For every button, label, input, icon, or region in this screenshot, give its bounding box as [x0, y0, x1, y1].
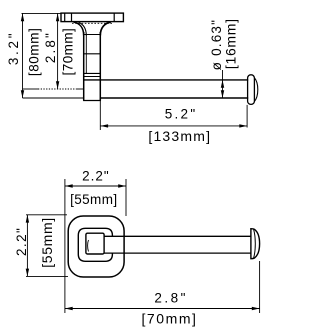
svg-text:[70mm]: [70mm]	[60, 28, 75, 76]
bar (front view)	[104, 236, 251, 253]
svg-text:[70mm]: [70mm]	[141, 310, 197, 326]
2.2" top dimension: right extension	[125, 179, 127, 216]
2.2" left dimension line	[26, 215, 28, 277]
svg-text:[55mm]: [55mm]	[39, 217, 55, 268]
svg-text:[55mm]: [55mm]	[70, 192, 117, 207]
dimension line 2.8" (vertical, x=57.6)	[57, 13, 59, 89]
2.8" bottom dimension line	[65, 308, 260, 310]
wall flange plate (side view)	[61, 13, 123, 22]
5.2" dimension line	[100, 125, 247, 127]
end cap ring edge (front view)	[254, 229, 256, 258]
flange hidden underside edge (dotted)	[72, 22, 113, 24]
collar rounded square (front view)	[78, 228, 112, 261]
2.8" bottom dimension: right extension	[259, 261, 261, 313]
top extension line (flange top level)	[22, 12, 62, 14]
svg-text:2.2": 2.2"	[14, 227, 29, 256]
2.2" top dimension line	[65, 185, 126, 187]
svg-text:[133mm]: [133mm]	[148, 128, 211, 144]
svg-text:3.2": 3.2"	[6, 31, 21, 65]
bar (side view)	[84, 80, 249, 98]
2.2" top dimension: left long extension line	[64, 179, 66, 313]
svg-text:2.8": 2.8"	[43, 31, 58, 63]
extension line B (bar bottom level, y=98)	[23, 97, 84, 99]
end cap (front view)	[251, 229, 260, 259]
5.2" dimension: left extension (post right edge continued)	[99, 99, 101, 130]
svg-text:2.8": 2.8"	[154, 290, 188, 305]
diameter dimension line (x=222.5)	[222, 70, 224, 98]
extension line A (bar centreline level, y=89)	[23, 88, 84, 90]
2.2" left dimension: extension lines	[26, 214, 67, 216]
wall plate escutcheon (front view)	[68, 216, 124, 277]
svg-text:2.2": 2.2"	[82, 168, 110, 183]
post (side view)	[83, 32, 101, 101]
end cap (side view)	[248, 75, 255, 105]
dimension line 3.2" (vertical, x=22.5)	[22, 13, 24, 98]
5.2" dimension: right extension	[246, 105, 248, 128]
svg-text:[80mm]: [80mm]	[26, 28, 41, 77]
post highlight arc	[87, 240, 90, 252]
post square (front view)	[86, 233, 104, 254]
fillet transition flange->post	[74, 22, 84, 36]
svg-text:[16mm]: [16mm]	[222, 18, 238, 69]
svg-text:5.2": 5.2"	[165, 106, 198, 121]
